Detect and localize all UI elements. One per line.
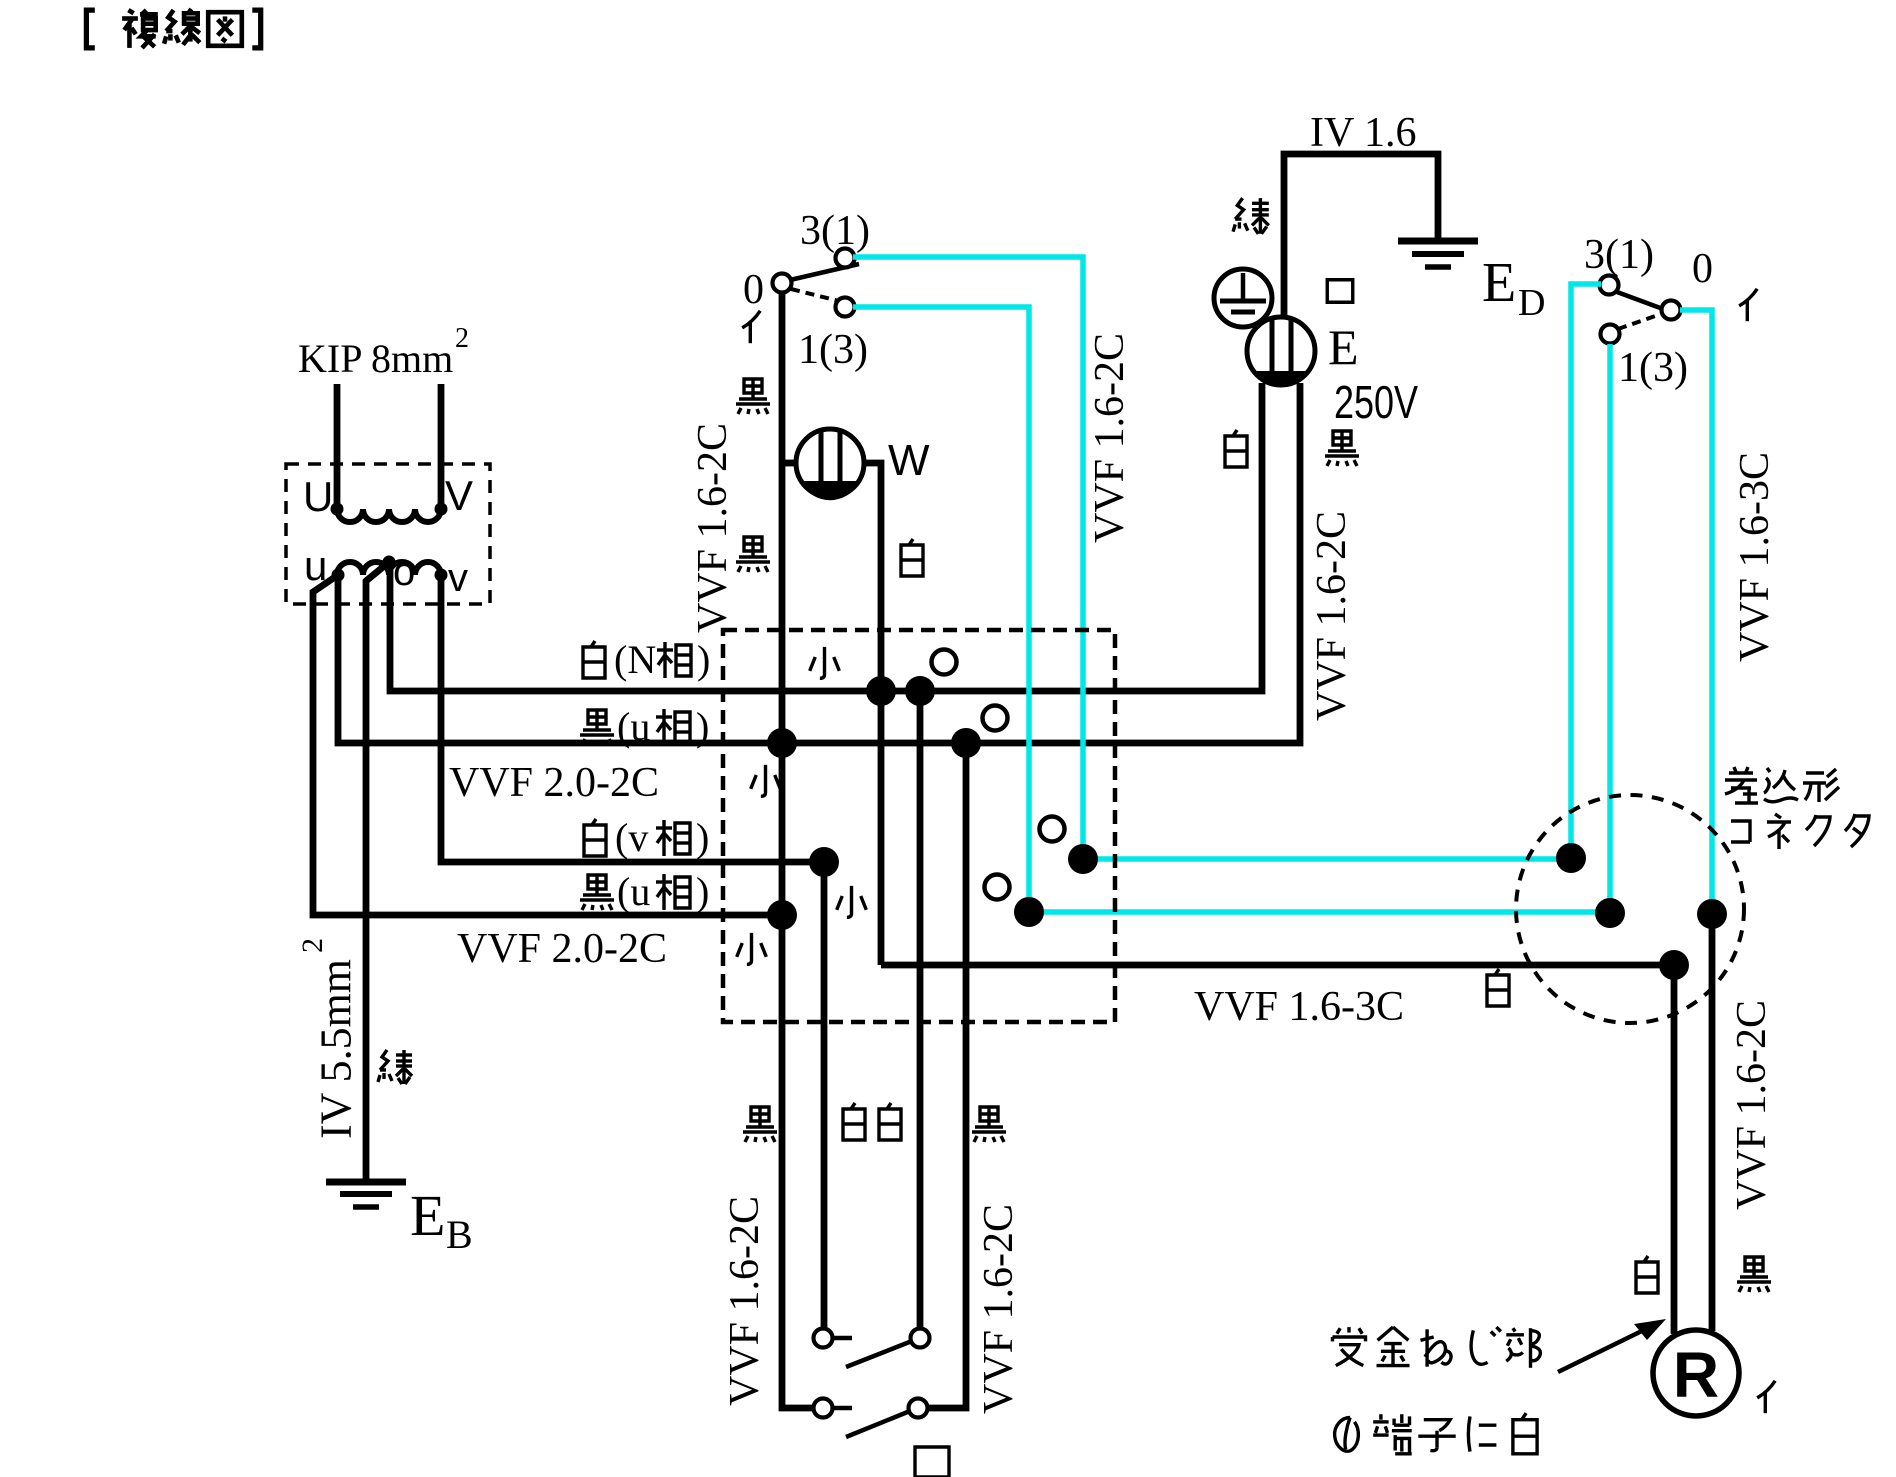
svg-text:250V: 250V: [1334, 376, 1418, 428]
svg-text:3(1): 3(1): [800, 208, 870, 254]
svg-text:1(3): 1(3): [1618, 345, 1688, 391]
svg-text:3(1): 3(1): [1584, 232, 1654, 278]
svg-text:VVF 1.6-2C: VVF 1.6-2C: [976, 1204, 1022, 1414]
svg-text:): ): [696, 869, 709, 914]
svg-text:(v: (v: [615, 815, 648, 860]
svg-text:VVF 1.6-2C: VVF 1.6-2C: [1087, 333, 1133, 543]
svg-text:IV 1.6: IV 1.6: [1310, 110, 1417, 156]
svg-text:KIP 8mm: KIP 8mm: [298, 336, 453, 381]
svg-text:VVF 2.0-2C: VVF 2.0-2C: [449, 760, 659, 806]
svg-text:V: V: [445, 472, 473, 519]
svg-text:E: E: [1328, 319, 1359, 375]
svg-text:VVF 1.6-2C: VVF 1.6-2C: [1309, 511, 1355, 721]
svg-text:o: o: [393, 550, 415, 594]
svg-text:VVF 1.6-3C: VVF 1.6-3C: [1732, 452, 1778, 662]
svg-text:VVF 1.6-2C: VVF 1.6-2C: [1729, 1000, 1775, 1210]
svg-text:VVF 1.6-2C: VVF 1.6-2C: [722, 1196, 768, 1406]
svg-text:): ): [696, 815, 709, 860]
svg-text:): ): [696, 704, 709, 749]
svg-text:D: D: [1518, 282, 1545, 324]
svg-text:0: 0: [743, 267, 764, 313]
svg-text:): ): [697, 637, 710, 682]
svg-text:(u: (u: [617, 704, 650, 749]
svg-text:VVF 2.0-2C: VVF 2.0-2C: [457, 926, 667, 972]
svg-text:W: W: [888, 436, 930, 485]
svg-text:0: 0: [1692, 246, 1713, 292]
svg-text:v: v: [448, 556, 468, 600]
svg-text:(N: (N: [614, 637, 656, 682]
svg-text:IV 5.5mm: IV 5.5mm: [312, 959, 361, 1139]
svg-text:B: B: [446, 1212, 473, 1257]
svg-text:U: U: [303, 473, 333, 520]
svg-text:1(3): 1(3): [798, 327, 868, 373]
svg-text:VVF 1.6-3C: VVF 1.6-3C: [1194, 984, 1404, 1030]
svg-text:VVF 1.6-2C: VVF 1.6-2C: [690, 423, 736, 633]
svg-text:E: E: [1482, 252, 1516, 314]
svg-text:u: u: [304, 542, 327, 589]
svg-text:2: 2: [296, 938, 329, 953]
svg-text:E: E: [410, 1183, 445, 1248]
svg-text:R: R: [1673, 1339, 1719, 1411]
svg-text:(u: (u: [617, 869, 650, 914]
svg-text:2: 2: [455, 323, 469, 354]
